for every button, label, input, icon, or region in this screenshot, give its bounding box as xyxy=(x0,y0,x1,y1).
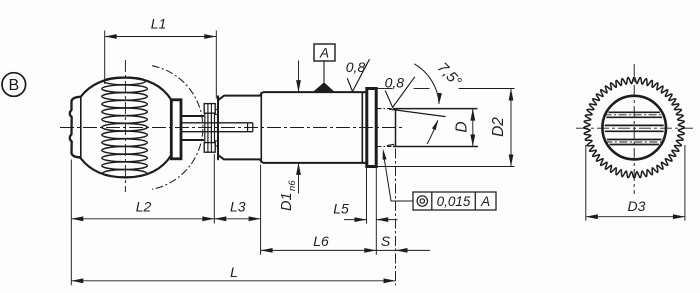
svg-text:L3: L3 xyxy=(230,199,246,215)
svg-text:S: S xyxy=(381,233,391,249)
svg-text:0,8: 0,8 xyxy=(385,74,405,90)
svg-text:L2: L2 xyxy=(136,199,152,215)
svg-text:D2: D2 xyxy=(490,117,507,137)
svg-text:L: L xyxy=(230,264,238,280)
svg-text:0,015: 0,015 xyxy=(437,194,471,209)
svg-text:0,8: 0,8 xyxy=(346,59,366,75)
svg-text:A: A xyxy=(319,45,329,60)
svg-text:B: B xyxy=(8,77,19,94)
svg-text:D: D xyxy=(453,121,470,132)
svg-text:A: A xyxy=(480,194,490,209)
svg-text:L1: L1 xyxy=(151,16,167,32)
svg-text:L5: L5 xyxy=(333,201,349,217)
svg-text:D3: D3 xyxy=(628,198,646,214)
svg-text:L6: L6 xyxy=(313,233,329,249)
